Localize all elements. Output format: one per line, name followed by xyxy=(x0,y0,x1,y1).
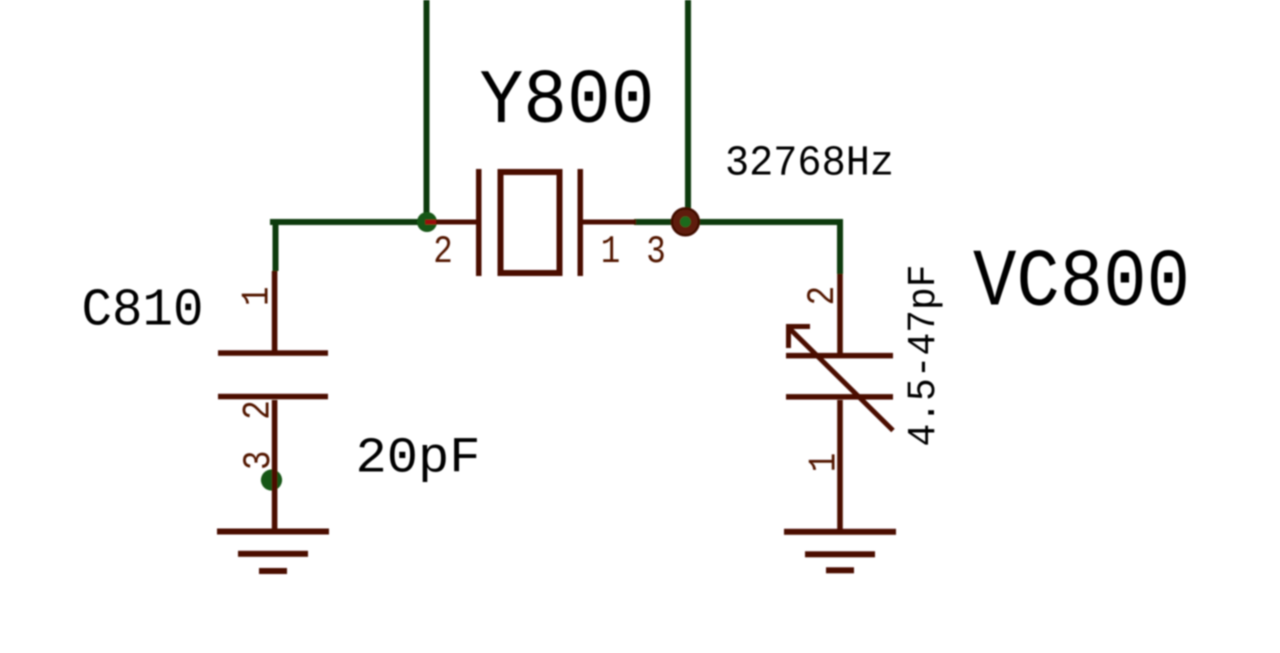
wire: crystal pin1 to node B xyxy=(634,219,687,225)
top plate xyxy=(786,353,893,359)
ground symbol right xyxy=(784,529,896,574)
bottom plate xyxy=(218,394,328,400)
ground symbol left xyxy=(217,529,329,575)
trimmer capacitor VC800 xyxy=(786,274,893,531)
svg-text:2: 2 xyxy=(433,230,453,274)
svg-text:1: 1 xyxy=(236,287,280,307)
pin 2 lead xyxy=(837,274,843,355)
wire: right vertical from top edge to node B xyxy=(685,0,691,225)
zero dot for 20pF xyxy=(399,452,404,457)
top plate xyxy=(218,350,328,356)
svg-text:VC800: VC800 xyxy=(973,237,1190,330)
node B green junction dot xyxy=(680,216,691,227)
svg-text:20pF: 20pF xyxy=(356,431,481,488)
wire: left vertical from top edge to node A xyxy=(424,0,430,225)
svg-text:4.5-47pF: 4.5-47pF xyxy=(902,265,947,447)
wire: horizontal from C810 corner to node A xyxy=(270,219,430,225)
svg-text:3: 3 xyxy=(646,230,666,274)
svg-text:1: 1 xyxy=(802,453,846,473)
pin 1 lead xyxy=(272,271,278,352)
svg-text:3: 3 xyxy=(237,450,281,470)
left plate xyxy=(476,169,482,276)
pin 2/3 lead down to ground xyxy=(272,400,278,531)
zero dots for VC800 xyxy=(1121,274,1127,280)
zero dot for C810 xyxy=(185,305,190,310)
wire: horizontal from node B to VC800 corner xyxy=(686,219,843,225)
svg-text:2: 2 xyxy=(237,400,281,420)
wire: vertical drop to C810 pin 1 xyxy=(273,219,279,271)
pin circle / node B at crystal pin 3 xyxy=(672,208,699,235)
crystal body rectangle xyxy=(501,172,560,273)
pin 2 lead xyxy=(425,220,476,225)
svg-text:32768Hz: 32768Hz xyxy=(725,140,894,188)
svg-text:1: 1 xyxy=(601,230,621,274)
pin 1 lead down to ground xyxy=(837,400,843,531)
zero dots for Y800 xyxy=(585,93,591,99)
node A junction dot xyxy=(417,212,437,232)
trimmer arrow xyxy=(787,324,893,431)
right plate xyxy=(578,169,584,276)
svg-text:Y800: Y800 xyxy=(480,59,655,146)
capacitor C810 xyxy=(218,271,328,531)
node C junction dot at C810 pin 3 xyxy=(261,469,282,490)
svg-text:2: 2 xyxy=(801,286,845,306)
bottom plate xyxy=(786,394,893,400)
pin 1 lead xyxy=(581,220,636,225)
crystal Y800 xyxy=(425,169,636,276)
svg-text:C810: C810 xyxy=(82,281,204,341)
wire: vertical drop to VC800 pin 2 xyxy=(837,219,843,274)
